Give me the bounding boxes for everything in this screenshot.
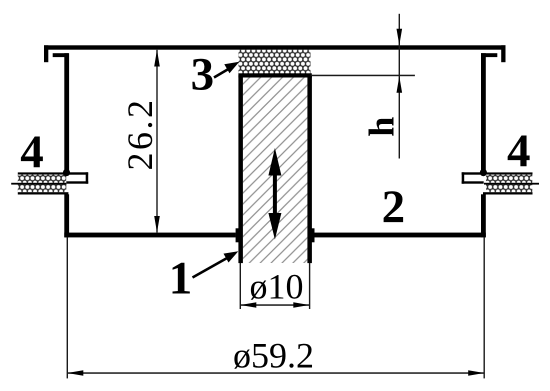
svg-text:ø10: ø10 [250,267,304,307]
left pin 4 centerline [11,183,66,185]
dimension o59.2 right extension [484,237,485,378]
dimension h extension line [311,75,415,77]
vessel bottom left segment [64,233,236,238]
svg-text:4: 4 [20,126,44,178]
cap 3 bottom edge [238,73,311,75]
dimension 26.2 bottom arrow [154,216,160,233]
label 1 leader arrow [193,251,239,277]
left pin 4 band top edge [18,172,69,174]
right pin inner end [462,172,484,183]
right pin 4 band bottom edge [483,192,533,194]
left wall upper segment [64,53,69,173]
label 3 leader arrow [214,62,239,78]
svg-text:4: 4 [507,125,531,177]
right junction dot [480,169,487,176]
dimension h down arrow [397,29,403,46]
svg-text:ø59.2: ø59.2 [233,336,314,376]
left pin 4 band lattice [18,175,67,193]
left wall lower segment [64,194,69,237]
rod right edge [307,76,312,264]
cap 3 cross-hatched fill [239,50,311,74]
dimension o10 left extension [240,263,241,309]
rod top edge [238,75,312,77]
vessel bottom right segment [314,233,486,238]
left junction dot [63,169,70,176]
svg-text:h: h [361,117,401,137]
left pin inner end [66,172,88,183]
dimension o59.2 line [67,372,484,374]
svg-text:26.2: 26.2 [120,98,160,171]
svg-text:1: 1 [169,253,193,305]
right wall upper segment [481,53,486,173]
left pin 4 band bottom edge [18,192,69,194]
left outer lip [44,45,48,62]
rod left edge [238,76,243,264]
double arrow in rod [268,148,281,240]
dimension o59.2 left extension [67,237,68,378]
svg-text:3: 3 [191,49,215,101]
dimension o10 right extension [309,263,310,309]
right pin 4 band top edge [483,172,533,174]
right pin 4 band lattice [486,175,532,193]
dimension h up arrow [397,76,403,93]
dimension h line [399,14,400,159]
right outer lip [501,45,505,62]
right wall top nub [481,53,497,57]
dimension o59.2 left arrow [67,370,83,375]
dimension o10 right arrow [293,302,309,307]
rod hatch fill [243,78,308,264]
right hole tick [312,228,315,242]
dimension o10 left arrow [240,302,256,307]
left wall top nub [53,53,69,57]
right pin 4 centerline [484,183,539,185]
vessel top plate [44,45,506,49]
svg-text:2: 2 [382,181,406,233]
left hole tick [236,228,239,242]
dimension o10 line [240,304,309,306]
right wall lower segment [481,194,486,237]
dimension 26.2 top arrow [154,50,160,67]
dimension o59.2 right arrow [468,370,484,375]
dimension 26.2 line [156,50,157,233]
